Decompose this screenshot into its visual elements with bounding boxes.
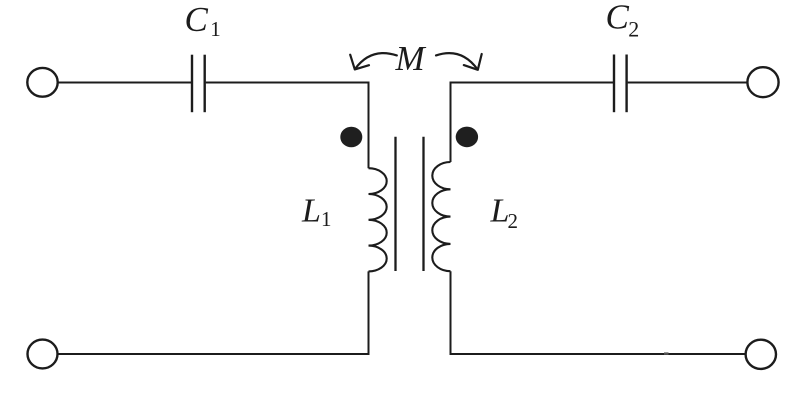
mutual coupling arrow right bbox=[436, 53, 482, 70]
inductor L2 winding bbox=[432, 162, 450, 271]
inductor L1 winding bbox=[369, 168, 387, 271]
svg-text:1: 1 bbox=[210, 17, 221, 41]
svg-text:L: L bbox=[301, 192, 321, 229]
phase dot right bbox=[456, 127, 478, 148]
transformer core line right bbox=[422, 137, 424, 271]
capacitor C2 bbox=[614, 55, 627, 113]
svg-text:2: 2 bbox=[628, 17, 639, 42]
svg-text:1: 1 bbox=[321, 207, 332, 231]
mutual coupling arrow left bbox=[350, 53, 397, 69]
junction speck on bottom-right wire bbox=[664, 352, 669, 354]
terminal top-right bbox=[747, 67, 778, 97]
transformer core line left bbox=[394, 137, 396, 271]
svg-text:C: C bbox=[606, 0, 630, 37]
terminal bottom-left bbox=[28, 340, 58, 369]
wire L1 bottom to bottom-left terminal bbox=[57, 271, 368, 354]
capacitor C1 bbox=[192, 55, 205, 112]
terminal top-left bbox=[27, 68, 57, 97]
phase dot left bbox=[340, 127, 362, 148]
wire C2 to top-right terminal bbox=[628, 82, 748, 84]
svg-text:2: 2 bbox=[508, 209, 519, 233]
svg-text:C: C bbox=[185, 0, 209, 39]
wire C1 to L1 top (corner) bbox=[206, 83, 369, 169]
wire L2 bottom to bottom-right terminal bbox=[451, 271, 746, 354]
svg-text:M: M bbox=[395, 39, 427, 78]
svg-text:L: L bbox=[490, 192, 510, 229]
wire top-left terminal to C1 bbox=[58, 82, 191, 84]
wire L2 top corner to C2 bbox=[451, 83, 614, 163]
terminal bottom-right bbox=[746, 340, 776, 369]
